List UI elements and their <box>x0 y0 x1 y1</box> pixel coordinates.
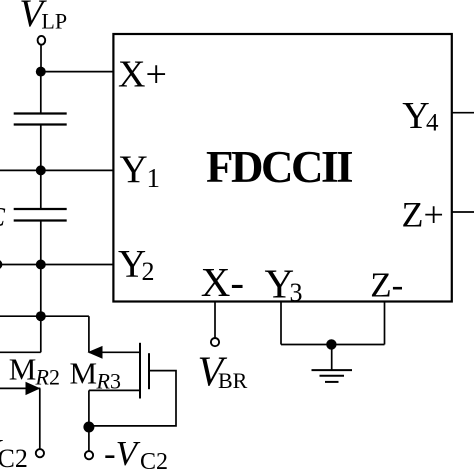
svg-text:X+: X+ <box>118 54 167 96</box>
svg-text:R3: R3 <box>96 369 121 394</box>
M_R2 source line <box>0 387 40 389</box>
wire X+ <box>41 71 114 73</box>
svg-text:FDCCII: FDCCII <box>206 142 352 192</box>
M_R2 source arrow <box>26 382 41 395</box>
svg-text:R2: R2 <box>35 365 60 390</box>
wire Y2 node down to node A <box>40 265 42 317</box>
terminal VLP <box>38 36 46 45</box>
svg-text:LP: LP <box>41 9 67 34</box>
M_R2 drain line <box>0 351 41 353</box>
M_R3 gate plate <box>148 353 150 389</box>
transistor M_R2 (cropped at left edge) <box>0 316 41 395</box>
M_R3 drain line <box>89 351 140 353</box>
junction (cropped at left edge) <box>0 260 2 270</box>
wire node A horizontal <box>0 315 89 317</box>
junction node A <box>36 311 46 321</box>
wire Y1 node to C2 <box>40 170 42 209</box>
svg-text:C: C <box>0 202 6 232</box>
transistor M_R3 <box>88 343 150 399</box>
terminal -VC2 (M_R2) <box>36 449 44 457</box>
svg-text:C2: C2 <box>140 449 168 474</box>
wire Y3/Z- bus <box>281 344 385 346</box>
wire C2 to Y2 node <box>40 221 42 265</box>
svg-text:4: 4 <box>426 109 439 136</box>
junction X+ node <box>36 67 46 77</box>
wire M_R3 source down <box>88 390 90 451</box>
wire X- stub <box>214 302 216 339</box>
wire Y3 stub <box>280 302 282 345</box>
svg-text:Z-: Z- <box>370 265 403 304</box>
wire Y2 <box>0 264 114 266</box>
terminal VBR <box>211 338 219 346</box>
ground <box>312 344 353 382</box>
svg-text:3: 3 <box>290 278 303 307</box>
junction M_R3 source node <box>83 422 94 433</box>
terminal -VC2 (M_R3) <box>85 451 93 459</box>
FDCCII block U1 <box>113 34 451 302</box>
capacitor C2 <box>14 209 67 221</box>
wire C1 to Y1 node <box>40 125 42 171</box>
svg-text:Z+: Z+ <box>402 195 444 235</box>
svg-text:1: 1 <box>147 163 161 193</box>
svg-text:BR: BR <box>218 368 248 393</box>
M_R3 channel plate <box>139 343 141 399</box>
wire Y1 <box>0 169 114 171</box>
wire Z- stub <box>384 302 386 345</box>
svg-text:M: M <box>70 356 98 391</box>
svg-text:2: 2 <box>142 257 155 286</box>
wire M_R3 drain drop <box>88 316 90 352</box>
svg-text:M: M <box>9 352 37 387</box>
M_R3 drain arrow <box>88 346 103 359</box>
wire Y4 <box>452 112 474 114</box>
wire Z+ <box>452 211 474 213</box>
junction Y2 node <box>36 260 46 270</box>
svg-text:-VC2: -VC2 <box>0 432 28 473</box>
junction ground node <box>326 339 336 349</box>
capacitor C1 <box>14 114 67 125</box>
wire X+ node to C1 <box>40 72 42 114</box>
svg-text:-V: -V <box>104 434 141 473</box>
M_R2 drain riser <box>40 316 42 352</box>
junction Y1 node <box>36 165 46 175</box>
wire M_R3 gate feedback <box>89 371 176 426</box>
wire VLP stub <box>40 44 42 72</box>
wire M_R2 source to terminal <box>39 388 41 449</box>
svg-text:X-: X- <box>201 259 244 305</box>
M_R3 source line <box>89 389 140 391</box>
svg-text:Y: Y <box>120 148 148 191</box>
